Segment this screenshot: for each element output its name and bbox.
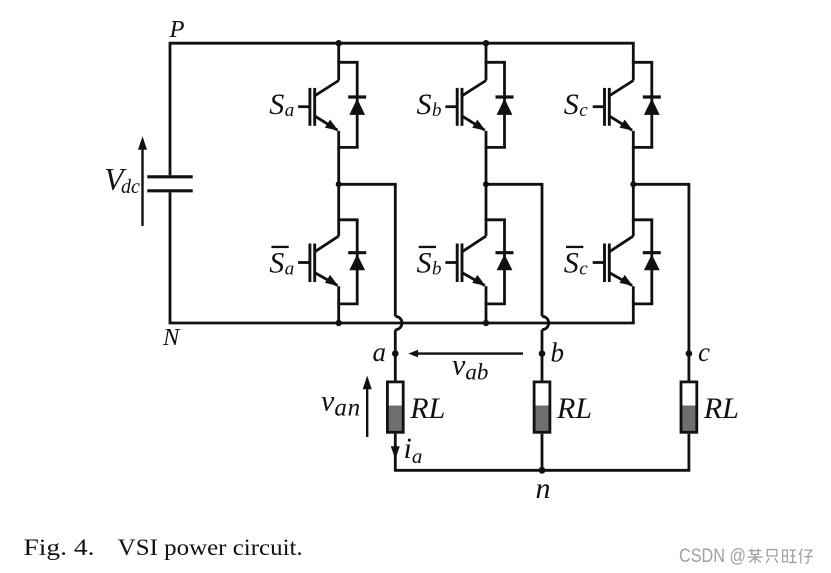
label van — [321, 385, 361, 422]
wire midpoint tap phase c — [633, 183, 690, 186]
load RL phase c — [681, 382, 697, 433]
wire Sbar_c (lower switch phase c) output — [632, 304, 635, 323]
junction midpoint phase a — [336, 181, 342, 187]
label Sbar_b (lower switch phase b) — [417, 246, 442, 280]
junction N rail phase a — [336, 320, 342, 326]
wire diode top bracket Sb (upper switch phase b) — [485, 61, 506, 64]
wire diode top bracket Sa (upper switch phase a) — [337, 61, 358, 64]
wire P rail (positive dc bus) — [169, 42, 635, 45]
arrow Vdc reference — [138, 136, 147, 226]
wire diode top bracket Sc (upper switch phase c) — [632, 61, 653, 64]
node a — [373, 337, 399, 367]
wire load a to n rail with ia arrow — [391, 434, 400, 471]
IGBT Sa (upper switch phase a) — [298, 81, 339, 131]
wire midpoint tap phase b — [486, 183, 543, 186]
IGBT Sc (upper switch phase c) — [593, 81, 634, 131]
node b — [539, 338, 564, 368]
wire output phase c — [688, 184, 691, 380]
label Sbar_c (lower switch phase c) — [564, 246, 589, 280]
wire load b to n rail — [541, 434, 544, 471]
wire load c to n rail — [688, 434, 691, 471]
wire dc-link left vertical upper — [169, 43, 172, 175]
junction midpoint phase c — [630, 181, 636, 187]
wire N rail (negative dc bus) — [169, 322, 635, 325]
wire Sb (upper switch phase b) output — [485, 147, 488, 184]
arrow van — [363, 376, 372, 437]
label RL phase c — [703, 392, 739, 425]
wire emitter feed Sb (upper switch phase b) — [485, 131, 488, 148]
IGBT Sbar_b (lower switch phase b) — [445, 236, 486, 286]
arrow vab — [408, 350, 523, 358]
wire neutral rail — [394, 469, 690, 472]
wire diode bottom bracket Sa (upper switch phase a) — [337, 146, 358, 149]
freewheeling diode of Sbar_b (lower switch phase b) — [496, 220, 514, 304]
svg-text:c: c — [698, 337, 710, 367]
wire hop over N rail phase a — [395, 316, 402, 329]
wire emitter feed Sbar_b (lower switch phase b) — [485, 286, 488, 304]
load RL phase a — [387, 382, 403, 433]
freewheeling diode of Sa (upper switch phase a) — [348, 62, 366, 147]
svg-text:VSI power circuit.: VSI power circuit. — [118, 535, 303, 560]
label RL phase a — [409, 392, 445, 425]
wire Sa (upper switch phase a) output — [337, 147, 340, 184]
caption Fig. 4. VSI power circuit. — [24, 535, 303, 560]
wire Sc (upper switch phase c) output — [632, 147, 635, 184]
wire collector feed Sbar_a (lower switch phase a) — [337, 184, 340, 236]
load RL phase b — [534, 382, 550, 433]
svg-text:CSDN @: CSDN @ — [679, 546, 746, 567]
label Sb (upper switch phase b) — [417, 88, 442, 121]
IGBT Sb (upper switch phase b) — [445, 81, 486, 131]
wire dc-link left vertical lower — [169, 192, 172, 323]
wire diode top bracket Sbar_a (lower switch phase a) — [337, 218, 358, 221]
junction midpoint phase b — [483, 181, 489, 187]
node n — [536, 467, 551, 505]
wire diode top bracket Sbar_b (lower switch phase b) — [485, 218, 506, 221]
wire diode top bracket Sbar_c (lower switch phase c) — [632, 218, 653, 221]
wire diode bottom bracket Sbar_b (lower switch phase b) — [485, 302, 506, 305]
label vab — [452, 349, 488, 385]
freewheeling diode of Sb (upper switch phase b) — [496, 62, 514, 147]
wire emitter feed Sa (upper switch phase a) — [337, 131, 340, 148]
svg-text:n: n — [536, 472, 551, 505]
IGBT Sbar_a (lower switch phase a) — [298, 236, 339, 286]
wire hop over N rail phase b — [542, 316, 549, 329]
wire diode bottom bracket Sbar_a (lower switch phase a) — [337, 302, 358, 305]
freewheeling diode of Sc (upper switch phase c) — [643, 62, 661, 147]
node c — [686, 337, 710, 367]
wire collector feed Sa (upper switch phase a) — [337, 43, 340, 80]
wire collector feed Sb (upper switch phase b) — [485, 43, 488, 80]
label Vdc — [104, 162, 140, 198]
wire Sbar_b (lower switch phase b) output — [485, 304, 488, 323]
wire diode bottom bracket Sc (upper switch phase c) — [632, 146, 653, 149]
svg-text:b: b — [551, 338, 565, 368]
wire collector feed Sc (upper switch phase c) — [632, 43, 635, 80]
label Sc (upper switch phase c) — [564, 88, 589, 121]
svg-text:Fig. 4.: Fig. 4. — [24, 535, 95, 560]
label Sa (upper switch phase a) — [269, 88, 294, 121]
wire midpoint tap phase a — [339, 183, 397, 186]
wire diode bottom bracket Sb (upper switch phase b) — [485, 146, 506, 149]
svg-text:RL: RL — [556, 392, 592, 425]
freewheeling diode of Sbar_c (lower switch phase c) — [643, 220, 661, 304]
capacitor Vdc plates — [147, 177, 192, 191]
wire emitter feed Sc (upper switch phase c) — [632, 131, 635, 148]
svg-text:RL: RL — [409, 392, 445, 425]
junction P rail phase a — [336, 40, 342, 46]
node N label — [162, 324, 181, 351]
label Sbar_a (lower switch phase a) — [269, 246, 294, 280]
label RL phase b — [556, 392, 592, 425]
wire output phase b upper — [541, 184, 544, 316]
wire Sbar_a (lower switch phase a) output — [337, 304, 340, 323]
freewheeling diode of Sbar_a (lower switch phase a) — [348, 220, 366, 304]
label ia — [404, 432, 423, 468]
wire emitter feed Sbar_c (lower switch phase c) — [632, 286, 635, 304]
wire output phase a upper — [394, 184, 397, 316]
watermark CSDN @某只旺仔 — [679, 546, 813, 567]
node P label — [169, 16, 185, 43]
IGBT Sbar_c (lower switch phase c) — [593, 236, 634, 286]
wire output phase a lower — [394, 330, 397, 381]
svg-text:N: N — [162, 324, 181, 351]
junction N rail phase b — [483, 320, 489, 326]
svg-text:P: P — [169, 16, 185, 43]
wire diode bottom bracket Sbar_c (lower switch phase c) — [632, 302, 653, 305]
wire output phase b lower — [541, 330, 544, 381]
svg-text:RL: RL — [703, 392, 739, 425]
svg-text:a: a — [373, 337, 387, 367]
wire collector feed Sbar_b (lower switch phase b) — [485, 184, 488, 236]
wire emitter feed Sbar_a (lower switch phase a) — [337, 286, 340, 304]
wire collector feed Sbar_c (lower switch phase c) — [632, 184, 635, 236]
junction P rail phase b — [483, 40, 489, 46]
